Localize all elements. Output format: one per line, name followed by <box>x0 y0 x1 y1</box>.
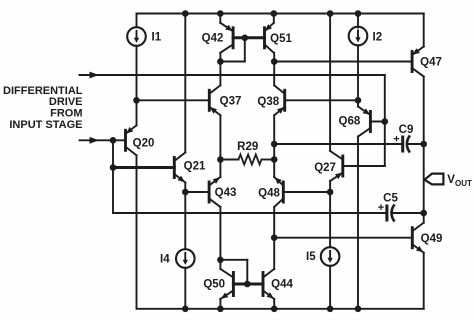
capacitor C5 <box>378 193 399 221</box>
transistor Q27 <box>330 151 343 181</box>
wire node A to Q20 emitter <box>136 100 138 125</box>
wire left branch down from lower input <box>112 140 114 213</box>
node Q21 emitter / Q43 base / I4 <box>182 189 189 196</box>
wire Q42-Q51 base tie (thick) <box>233 36 264 39</box>
wire Q68 collector to bottom rail <box>357 137 359 309</box>
svg-text:Q51: Q51 <box>270 33 292 45</box>
node bottom rail / Q44 emitter <box>271 306 278 313</box>
transistor Q47 <box>412 47 424 77</box>
transistor Q50 <box>220 269 233 299</box>
node Q43 collector / Q50 collector / loop <box>217 257 224 264</box>
wire positive supply rail (top) <box>137 13 424 15</box>
svg-text:Q20: Q20 <box>133 138 155 150</box>
transistor Q51 <box>265 23 274 53</box>
resistor R29 <box>220 141 274 165</box>
svg-text:I1: I1 <box>152 32 162 44</box>
transistor Q37 <box>209 85 220 115</box>
wire Q44 emitter to bottom rail <box>273 299 275 309</box>
svg-text:DRIVE: DRIVE <box>49 96 83 108</box>
wire node to Q38 collector <box>273 62 275 86</box>
wire Q48 collector down <box>273 207 275 238</box>
wire Q50-Q44 base tie (thick) <box>233 283 263 286</box>
wire Q37 emitter to R29 left <box>219 115 221 159</box>
transistor Q49 <box>412 223 423 253</box>
svg-text:Q38: Q38 <box>257 96 279 108</box>
transistor Q43 <box>209 177 220 207</box>
svg-text:Q68: Q68 <box>339 116 361 128</box>
wire I1 to node A <box>136 46 138 101</box>
wire node to Q44 collector <box>273 238 275 269</box>
svg-text:Q42: Q42 <box>202 33 224 45</box>
svg-text:I4: I4 <box>160 254 170 266</box>
current source I4 <box>176 249 195 268</box>
wire R29 left to Q43 emitter <box>219 160 221 178</box>
wire top rail to Q42 emitter <box>219 14 221 23</box>
node top rail / Q51 emitter <box>271 10 278 17</box>
wire negative supply rail (bottom) <box>137 308 424 310</box>
node A: I1 / Q20 emitter / Q37 base <box>133 97 140 104</box>
svg-text:I5: I5 <box>306 251 316 263</box>
wire top rail to Q21 collector <box>184 14 186 153</box>
svg-text:INPUT STAGE: INPUT STAGE <box>9 119 82 131</box>
node C5 / output rail <box>420 210 427 217</box>
wire Q48 base line <box>283 191 330 193</box>
node left branch / Q21 base line <box>110 164 117 171</box>
wire I4 to bottom rail <box>184 268 186 309</box>
node Q42 collector / Q37 collector / loop <box>217 58 224 65</box>
transistor Q68 <box>358 107 370 137</box>
wire long line to C5 (y=213) <box>113 212 387 214</box>
svg-text:Q50: Q50 <box>203 278 225 290</box>
wire Q51 collector to Q47 base <box>274 61 412 63</box>
node Q50/Q44 base tie <box>244 281 251 288</box>
wire Q50 collector-base loop vertical <box>246 260 248 284</box>
node Q42/Q51 base tie <box>242 35 249 42</box>
wire Q50 collector-base loop horizontal <box>220 259 247 261</box>
node bottom rail / Q50 emitter <box>217 306 224 313</box>
svg-text:Q47: Q47 <box>420 57 442 69</box>
wire upper differential drive input (node to Q37/Q38 side) <box>80 74 385 76</box>
svg-text:OUT: OUT <box>455 179 472 188</box>
node bottom rail / I5 <box>327 306 334 313</box>
svg-text:C9: C9 <box>399 124 414 136</box>
wire Q21 base line (thick) <box>113 166 174 169</box>
wire Q49 emitter to bottom rail <box>423 253 425 309</box>
node top rail / I2 <box>355 10 362 17</box>
wire I5 to bottom rail <box>329 266 331 309</box>
wire Q50 emitter to bottom rail <box>219 299 221 309</box>
transistor Q21 <box>174 153 185 183</box>
node top rail / Q27 collector <box>327 10 334 17</box>
svg-text:Q37: Q37 <box>220 95 242 107</box>
wire Q51 collector down <box>273 53 275 62</box>
svg-text:R29: R29 <box>237 141 258 153</box>
wire Q42 collector-base loop horizontal <box>220 61 244 63</box>
node Q27 emitter / Q48 base / I5 <box>327 189 334 196</box>
wire output rail to Q49 collector <box>423 213 425 223</box>
svg-text:Q43: Q43 <box>215 187 237 199</box>
svg-text:Q27: Q27 <box>314 162 336 174</box>
wire C9 node to C9 left plate <box>274 143 401 145</box>
wire node to Q37 collector <box>219 62 221 86</box>
wire Q21 emitter to I4 <box>184 183 186 250</box>
wire R29 right to Q48 emitter <box>273 160 275 178</box>
wire Q42 collector down <box>219 53 221 62</box>
wire top rail to Q27 collector <box>329 14 331 151</box>
svg-text:C5: C5 <box>383 193 398 205</box>
svg-text:Q21: Q21 <box>184 160 206 172</box>
node C9 / output rail <box>420 141 427 148</box>
svg-text:Q48: Q48 <box>258 187 280 199</box>
node bottom rail / Q68 collector <box>355 306 362 313</box>
transistor Q48 <box>274 177 283 207</box>
capacitor C9 <box>393 124 413 152</box>
wire Q38 base line to Q68 node <box>285 99 358 101</box>
node B: I2 / Q68 emitter / Q38 base <box>355 97 362 104</box>
wire Q47 emitter down <box>423 76 425 144</box>
wire top rail to Q51 emitter <box>273 14 275 23</box>
wire C5 right plate to output rail <box>393 212 424 214</box>
wire Q42 collector-base loop vertical <box>244 38 246 62</box>
wire Q68 base line <box>370 121 384 123</box>
wire node to Q68 emitter <box>357 100 359 106</box>
node R29 left / Q37 emitter / Q43 emitter <box>217 156 224 163</box>
wire output rail C9 to C5 <box>423 144 425 213</box>
transistor Q38 <box>274 85 285 115</box>
wire upper input branch down to Q27 base <box>384 75 386 166</box>
wire Q48/Q44 collectors to Q49 base <box>274 237 412 239</box>
node Q48 collector / Q44 collector / Q49 base <box>271 234 278 241</box>
wire node A to Q37 base <box>137 99 210 101</box>
node R29 right / Q38 emitter / Q48 emitter <box>271 156 278 163</box>
wire top rail to I1 <box>136 14 138 28</box>
wire top rail to Q47 collector <box>423 14 425 47</box>
transistor Q20 <box>126 125 137 155</box>
wire Q27 emitter down <box>329 181 331 192</box>
wire Q21 emitter node to Q43 base <box>185 191 209 193</box>
wire Q20 collector to bottom rail <box>136 155 138 308</box>
node top rail / Q42 emitter <box>217 10 224 17</box>
current source I2 <box>349 27 368 46</box>
wire I2 down to Q68 node <box>357 46 359 100</box>
output terminal VOUT <box>425 174 473 188</box>
node Q51 collector / Q38 collector / Q47 base line <box>271 58 278 65</box>
label differential drive from input stage <box>3 85 83 131</box>
wire Q50 collector stub <box>219 260 221 269</box>
node Q68 base on x=385 branch <box>382 118 389 125</box>
current source I1 <box>127 27 146 46</box>
transistor Q44 <box>263 269 274 299</box>
wire Q27 base line <box>343 165 385 167</box>
svg-text:I2: I2 <box>373 32 383 44</box>
svg-text:FROM: FROM <box>50 108 82 120</box>
node C9 tap on Q38 emitter column <box>271 141 278 148</box>
wire top rail to I2 <box>357 14 359 28</box>
node top rail / Q21 collector <box>182 10 189 17</box>
node bottom rail / I4 <box>182 306 189 313</box>
svg-text:Q49: Q49 <box>421 233 443 245</box>
input arrow lower <box>90 137 100 144</box>
wire Q43 collector to Q50 collector <box>219 207 221 260</box>
svg-text:Q44: Q44 <box>271 278 293 290</box>
wire node to I5 <box>329 192 331 247</box>
node lower input branch <box>110 137 117 144</box>
transistor Q42 <box>220 23 233 53</box>
current source I5 <box>321 247 340 266</box>
svg-text:DIFFERENTIAL: DIFFERENTIAL <box>3 85 83 97</box>
wire C9 right plate to output rail <box>408 143 424 145</box>
wire Q38 emitter to R29 right via C9 node <box>273 115 275 159</box>
input arrow upper <box>90 72 100 79</box>
wire lower differential drive input to Q20 base <box>80 139 126 141</box>
